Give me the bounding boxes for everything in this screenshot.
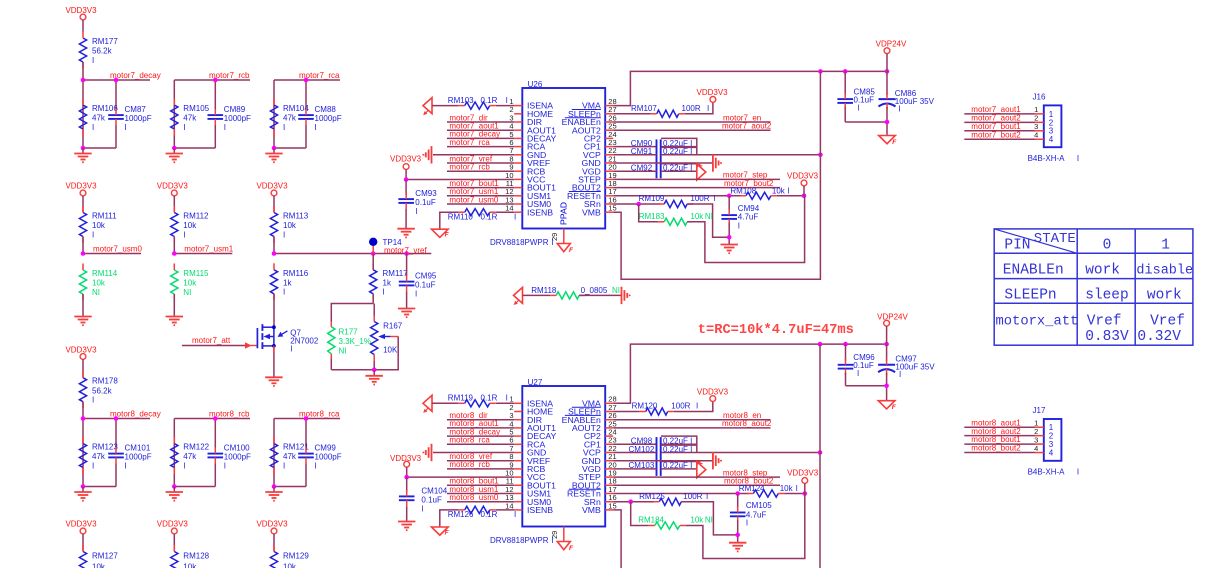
wire — [687, 196, 804, 263]
resistor RM107 — [613, 113, 651, 115]
resistor RM103 — [465, 102, 490, 109]
resistor RM121 — [270, 444, 277, 468]
svg-text:RM127: RM127 — [92, 552, 118, 561]
svg-text:RM103: RM103 — [448, 96, 474, 105]
wire — [886, 326, 888, 344]
wire — [681, 502, 737, 535]
svg-text:100R: 100R — [682, 104, 701, 113]
pin 19 STEP — [605, 178, 613, 180]
junction — [818, 342, 823, 347]
wire — [819, 344, 821, 452]
resistor RM126 — [465, 506, 490, 513]
svg-text:F: F — [569, 247, 574, 254]
junction — [404, 177, 409, 182]
svg-text:I: I — [290, 345, 292, 354]
svg-text:56.2k: 56.2k — [92, 47, 113, 56]
junction — [304, 416, 309, 421]
svg-text:CM93: CM93 — [415, 189, 437, 198]
wire VCC — [405, 170, 407, 180]
svg-text:motor8_rca: motor8_rca — [449, 436, 490, 445]
test point TP14 — [372, 244, 374, 254]
junction — [81, 416, 86, 421]
pin 20 VGD — [605, 468, 613, 470]
svg-text:CM92: CM92 — [631, 164, 653, 173]
pin 2 motor8_aout2 — [964, 435, 1035, 437]
capacitor CM87 — [108, 114, 124, 116]
svg-text:PIN: PIN — [1004, 238, 1030, 254]
svg-text:47k: 47k — [92, 114, 106, 123]
svg-text:10k: 10k — [283, 562, 297, 568]
pin 10 VCC — [514, 178, 522, 180]
junction — [81, 78, 86, 83]
wire VMB U27 — [613, 510, 621, 568]
pin 6 RCA — [514, 146, 522, 148]
svg-text:100uF 35V: 100uF 35V — [895, 97, 935, 106]
junction — [114, 78, 119, 83]
svg-text:I: I — [415, 207, 417, 216]
wire — [886, 54, 888, 72]
svg-text:0.1R: 0.1R — [481, 394, 498, 403]
svg-text:47k: 47k — [183, 452, 197, 461]
svg-text:4.7uF: 4.7uF — [746, 510, 767, 519]
svg-text:1000pF: 1000pF — [315, 453, 342, 462]
junction — [885, 120, 890, 125]
ground — [82, 487, 84, 493]
ground — [265, 376, 282, 378]
resistor RM178 — [79, 378, 86, 402]
resistor RM120 — [613, 411, 640, 413]
pin 7 GND — [514, 452, 522, 454]
wire — [674, 402, 713, 412]
svg-text:0.1uF: 0.1uF — [415, 281, 436, 290]
resistor RM183 (NI) — [639, 204, 659, 222]
svg-text:motor8_aout2: motor8_aout2 — [722, 419, 772, 428]
svg-text:t=RC=10k*4.7uF=47ms: t=RC=10k*4.7uF=47ms — [698, 323, 854, 338]
capacitor CM94 — [728, 196, 730, 211]
node motor8_en — [613, 419, 770, 421]
wire VMA to rail — [613, 71, 887, 105]
resistor RM128 — [171, 552, 178, 568]
wire — [82, 294, 84, 317]
svg-text:2N7002: 2N7002 — [290, 337, 319, 346]
pin 4 motor8_bout2 — [964, 452, 1035, 454]
node motor8_aout2 — [613, 427, 770, 429]
svg-text:I: I — [283, 461, 285, 470]
wire — [82, 534, 84, 552]
svg-text:RM112: RM112 — [183, 212, 209, 221]
svg-text:I: I — [92, 461, 94, 470]
wire — [273, 346, 275, 377]
svg-text:I: I — [738, 221, 740, 230]
junction — [884, 383, 889, 388]
svg-text:RM129: RM129 — [283, 552, 309, 561]
svg-text:I: I — [92, 56, 94, 65]
capacitor CM85 — [844, 71, 846, 95]
wire RM105 branch — [173, 80, 175, 148]
resistor RM106 — [79, 105, 86, 129]
svg-text:motorx_att: motorx_att — [996, 314, 1079, 329]
svg-text:0.32V: 0.32V — [1137, 329, 1181, 345]
pin 9 RCB — [514, 170, 522, 172]
wire — [82, 196, 84, 213]
svg-text:VDD3V3: VDD3V3 — [65, 345, 97, 354]
wire — [273, 196, 275, 213]
wire — [687, 204, 729, 237]
svg-text:0.1uF: 0.1uF — [421, 495, 442, 504]
svg-text:RM113: RM113 — [283, 212, 309, 221]
wire — [685, 102, 713, 114]
svg-text:motor7_att: motor7_att — [192, 336, 231, 345]
svg-text:VDD3V3: VDD3V3 — [256, 520, 288, 529]
svg-text:3.3K_1%: 3.3K_1% — [339, 337, 371, 346]
junction — [81, 484, 86, 489]
svg-text:4: 4 — [1049, 135, 1054, 144]
svg-text:I: I — [714, 194, 716, 203]
svg-text:100uF 35V: 100uF 35V — [895, 363, 935, 372]
pin 1 ISENA — [514, 402, 522, 404]
svg-text:4: 4 — [1034, 444, 1038, 453]
svg-text:RM125: RM125 — [639, 492, 665, 501]
capacitor CM97 — [886, 344, 888, 361]
wire — [440, 510, 459, 527]
pin 8 VREF — [514, 460, 522, 462]
svg-text:CM100: CM100 — [224, 444, 250, 453]
wire — [182, 345, 245, 347]
IC U26 DRV8818PWPR — [522, 88, 605, 229]
svg-text:CM91: CM91 — [631, 147, 653, 156]
ground — [397, 228, 414, 230]
wire — [405, 209, 407, 229]
junction — [213, 416, 218, 421]
pin 3 motor8_bout1 — [964, 443, 1035, 445]
pin 15 VMB — [605, 211, 613, 213]
svg-text:VDP24V: VDP24V — [876, 40, 907, 49]
IC U27 DRV8818PWPR — [522, 386, 605, 527]
svg-text:0.1uF: 0.1uF — [415, 198, 436, 207]
junction — [843, 342, 848, 347]
svg-text:1: 1 — [1161, 238, 1170, 254]
junction — [636, 202, 641, 207]
wire — [82, 62, 84, 80]
node motor7_bout2 — [613, 187, 780, 189]
svg-text:F: F — [892, 404, 897, 411]
svg-text:CM104: CM104 — [421, 486, 447, 495]
svg-text:motor7_vref: motor7_vref — [384, 246, 427, 255]
svg-text:1000pF: 1000pF — [125, 453, 152, 462]
svg-text:F: F — [445, 529, 450, 536]
svg-text:CM95: CM95 — [415, 272, 437, 281]
wire — [846, 385, 887, 387]
svg-text:1000pF: 1000pF — [224, 453, 251, 462]
pin 14 ISENB — [514, 509, 522, 511]
pin 2 HOME — [514, 113, 522, 115]
capacitor CM88 — [298, 114, 314, 116]
svg-text:motor8_bout2: motor8_bout2 — [971, 444, 1021, 453]
svg-text:I: I — [746, 519, 748, 528]
resistor RM116 — [270, 270, 277, 294]
svg-text:CM89: CM89 — [224, 105, 246, 114]
svg-text:sleep: sleep — [1085, 287, 1129, 303]
wire VMA to rail U27 — [613, 344, 886, 403]
resistor RM177 — [79, 38, 86, 62]
svg-text:CM103: CM103 — [629, 461, 655, 470]
ground — [729, 542, 746, 544]
wire net row — [83, 418, 150, 420]
resistor RM115 (NI) — [171, 270, 178, 294]
pin 22 VCP — [605, 452, 613, 454]
svg-text:47k: 47k — [183, 114, 197, 123]
pin 3 DIR — [514, 419, 522, 421]
pin 23 CP1 — [605, 443, 613, 445]
wire net row — [83, 79, 150, 81]
wire RESETn — [613, 195, 740, 197]
wire — [173, 534, 175, 552]
svg-text:NI: NI — [339, 347, 347, 356]
svg-text:I: I — [92, 396, 94, 405]
svg-text:I: I — [315, 123, 317, 132]
junction — [735, 533, 740, 538]
pin 2 HOME — [514, 411, 522, 413]
ground — [621, 287, 623, 304]
svg-text:I: I — [224, 123, 226, 132]
svg-text:RM114: RM114 — [92, 269, 118, 278]
resistor RM109 — [664, 200, 687, 207]
pin 22 VCP — [605, 154, 613, 156]
pin 15 VMB — [605, 509, 613, 511]
svg-text:I: I — [315, 462, 317, 471]
svg-text:motor7_bout2: motor7_bout2 — [971, 130, 1021, 139]
capacitor CM90 — [661, 138, 697, 146]
svg-text:VDP24V: VDP24V — [877, 312, 908, 321]
svg-text:RM117: RM117 — [383, 269, 409, 278]
pin 18 BOUT2 — [605, 484, 613, 486]
resistor RM108 — [746, 192, 771, 199]
svg-text:Vref: Vref — [1150, 313, 1185, 329]
wire — [819, 453, 821, 568]
svg-text:I: I — [796, 484, 798, 493]
wire — [432, 402, 459, 404]
flag RM118 — [514, 287, 523, 303]
resistor RM118 (NI) — [556, 292, 579, 299]
ground — [166, 316, 183, 318]
junction — [304, 78, 309, 83]
pin 25 AOUT2 — [605, 427, 613, 429]
svg-text:I: I — [183, 123, 185, 132]
svg-text:Vref: Vref — [1087, 313, 1122, 329]
resistor R177 (NI) — [331, 304, 373, 323]
svg-text:RM184: RM184 — [638, 516, 664, 525]
svg-text:15: 15 — [608, 204, 616, 213]
svg-text:NI: NI — [705, 212, 713, 221]
svg-text:I: I — [552, 536, 554, 545]
svg-text:10k: 10k — [183, 279, 197, 288]
pin 12 USM1 — [514, 195, 522, 197]
svg-text:I: I — [92, 123, 94, 132]
svg-text:I: I — [183, 230, 185, 239]
junction — [818, 153, 823, 158]
wire RM122 branch — [173, 419, 175, 487]
ground pin7 — [433, 154, 514, 156]
capacitor CM96 — [845, 344, 847, 361]
table pin-state — [994, 229, 1193, 345]
flag VGD U27 — [697, 462, 706, 478]
svg-text:RM183: RM183 — [639, 212, 665, 221]
svg-text:0.22uF I: 0.22uF I — [663, 164, 692, 173]
pin 9 RCB — [514, 468, 522, 470]
wire RM104 branch — [273, 80, 275, 148]
svg-text:47k: 47k — [92, 452, 106, 461]
resistor RM111 — [79, 213, 86, 237]
junction — [371, 251, 376, 256]
svg-text:CM87: CM87 — [125, 105, 147, 114]
pin 28 VMA — [605, 105, 613, 107]
svg-text:work: work — [1147, 287, 1182, 303]
svg-text:RM110: RM110 — [448, 213, 474, 222]
junction — [213, 78, 218, 83]
resistor RM124 — [753, 490, 778, 497]
svg-text:4.7uF: 4.7uF — [738, 213, 759, 222]
junction — [272, 484, 277, 489]
wire — [372, 294, 374, 304]
svg-text:motor8_usm0: motor8_usm0 — [449, 493, 498, 502]
pin 8 VREF — [514, 162, 522, 164]
junction — [802, 194, 807, 199]
pin 1 motor8_aout1 — [964, 426, 1035, 428]
pin 5 DECAY — [514, 137, 522, 139]
svg-text:motor7_rcb: motor7_rcb — [449, 163, 490, 172]
svg-text:VDD3V3: VDD3V3 — [787, 171, 819, 180]
svg-text:motor7_usm0: motor7_usm0 — [449, 195, 498, 204]
ground — [373, 370, 375, 376]
svg-text:100R: 100R — [690, 194, 709, 203]
svg-text:motor7_usm1: motor7_usm1 — [184, 244, 233, 253]
svg-text:DRV8818PWPR: DRV8818PWPR — [490, 238, 549, 247]
pin 27 SLEEPn — [605, 113, 613, 115]
svg-text:CM88: CM88 — [315, 105, 337, 114]
svg-text:RM119: RM119 — [448, 394, 474, 403]
wire — [82, 360, 84, 378]
resistor RM104 — [270, 105, 277, 129]
svg-text:I: I — [283, 288, 285, 297]
ground — [557, 244, 570, 252]
node motor7_en — [613, 121, 770, 123]
svg-text:1000pF: 1000pF — [315, 114, 342, 123]
svg-text:disable: disable — [1136, 264, 1193, 279]
svg-text:47k: 47k — [283, 452, 297, 461]
resistor RM105 — [171, 105, 178, 129]
svg-text:F: F — [445, 232, 450, 239]
junction — [81, 251, 86, 256]
svg-text:I: I — [125, 462, 127, 471]
ground — [82, 148, 84, 154]
capacitor CM102 — [661, 445, 697, 452]
svg-text:CM101: CM101 — [125, 444, 151, 453]
ground — [398, 521, 415, 523]
junction — [81, 146, 86, 151]
svg-text:F: F — [569, 545, 574, 552]
svg-text:10k: 10k — [780, 484, 794, 493]
svg-text:14: 14 — [505, 501, 513, 510]
resistor RM112 — [171, 213, 178, 237]
svg-text:F: F — [892, 139, 897, 146]
svg-text:14: 14 — [505, 204, 513, 213]
pin 1 ISENA — [514, 105, 522, 107]
svg-text:0.22uF I: 0.22uF I — [663, 461, 692, 470]
svg-text:B4B-XH-A: B4B-XH-A — [1028, 467, 1066, 476]
svg-text:ISENB: ISENB — [527, 207, 553, 217]
capacitor CM93 — [405, 180, 407, 196]
svg-text:100R: 100R — [683, 492, 702, 501]
wire — [82, 20, 84, 32]
capacitor CM104 — [406, 477, 408, 492]
svg-text:0.83V: 0.83V — [1085, 329, 1129, 345]
node motor7_step — [613, 178, 780, 180]
junction — [843, 69, 848, 74]
svg-text:47k: 47k — [283, 114, 297, 123]
pin 16 SRn — [605, 203, 613, 205]
svg-text:RM116: RM116 — [283, 269, 309, 278]
wire RM121 branch — [273, 419, 275, 487]
wire VCP rail — [819, 71, 821, 154]
wire — [845, 121, 887, 123]
pin 23 CP1 — [605, 146, 613, 148]
svg-text:I: I — [92, 230, 94, 239]
svg-text:I: I — [421, 504, 423, 513]
svg-text:R177: R177 — [339, 327, 359, 336]
svg-text:10k: 10k — [92, 562, 106, 568]
resistor RM123 — [79, 444, 86, 468]
pin 3 DIR — [514, 121, 522, 123]
svg-text:1000pF: 1000pF — [224, 114, 251, 123]
svg-text:work: work — [1085, 263, 1120, 279]
svg-text:ISENB: ISENB — [527, 505, 553, 515]
svg-text:I: I — [552, 238, 554, 247]
wire — [273, 534, 275, 552]
ground — [173, 487, 175, 493]
pin 17 RESETn — [605, 195, 613, 197]
pin 27 SLEEPn — [605, 411, 613, 413]
wire — [173, 237, 175, 254]
junction — [818, 69, 823, 74]
svg-text:10k: 10k — [690, 212, 704, 221]
junction — [172, 251, 177, 256]
svg-text:VDD3V3: VDD3V3 — [65, 520, 97, 529]
junction — [884, 342, 889, 347]
wire — [579, 294, 621, 296]
svg-text:I: I — [415, 290, 417, 299]
capacitor CM100 — [208, 453, 224, 455]
ground — [173, 148, 175, 154]
svg-text:NI: NI — [705, 516, 713, 525]
junction — [114, 416, 119, 421]
svg-text:10k: 10k — [183, 221, 197, 230]
transistor Q7 — [256, 328, 258, 348]
svg-text:RM120: RM120 — [632, 402, 658, 411]
svg-text:4: 4 — [1034, 131, 1038, 140]
capacitor CM95 — [406, 254, 408, 276]
svg-text:I: I — [899, 370, 901, 379]
svg-text:I: I — [706, 492, 708, 501]
wire net row — [174, 418, 250, 420]
capacitor CM99 — [298, 453, 314, 455]
pin 4 motor7_bout2 — [964, 138, 1035, 140]
svg-text:J17: J17 — [1033, 406, 1046, 415]
wire — [82, 402, 84, 419]
svg-text:STATE: STATE — [1034, 231, 1076, 247]
wire VMB loop — [613, 155, 820, 279]
ground — [879, 136, 896, 144]
node motor7_aout2 — [613, 129, 770, 131]
